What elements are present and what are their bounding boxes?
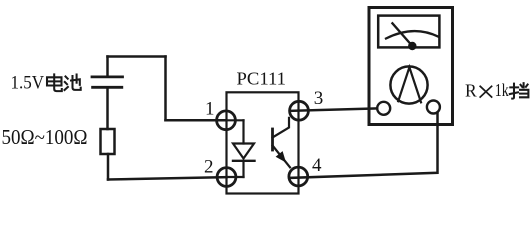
svg-text:PC111: PC111 [237,69,287,89]
meter dial pointer [398,67,421,102]
wire bottom rail to pin 2 [108,177,227,179]
pin 3 terminal [290,101,309,120]
svg-text:3: 3 [314,88,324,109]
glyph 电 [47,74,62,91]
pin 4 terminal [289,167,308,186]
multimeter M1 case [369,8,453,125]
phototransistor Q1 emitter arrow [276,151,286,162]
pin 1 terminal [217,111,236,130]
meter left terminal [377,102,390,115]
wire pin1 to LED anode [226,119,244,121]
label 1.5V电池 [11,74,81,94]
phototransistor Q1 collector [273,118,290,138]
phototransistor Q1 base bar [271,129,274,150]
LED D1 cathode bar [233,160,255,162]
meter right terminal [427,101,440,114]
meter range dial [390,66,427,103]
label R×1k挡 [465,80,528,101]
phototransistor Q1 emitter [273,146,291,168]
multiplication sign [480,86,491,97]
svg-text:1.5V: 1.5V [11,74,45,94]
svg-text:1: 1 [205,98,215,119]
meter needle [392,23,412,46]
LED D1 triangle [233,144,254,159]
wire battery+ to top rail [106,57,109,76]
meter scale arc [386,31,439,38]
wire pin4 to meter right terminal [289,113,437,178]
wire right drop to pin1 [164,57,167,121]
meter needle pivot [408,42,416,50]
LED D1 anode lead [242,120,244,143]
resistor R1 [101,129,115,154]
svg-text:50Ω~100Ω: 50Ω~100Ω [2,125,88,149]
optocoupler U1 body [227,92,299,193]
svg-text:R: R [465,81,477,101]
wire to pin 1 [166,119,227,122]
wire battery- to resistor [106,89,109,130]
wire resistor to bottom rail [107,154,110,180]
wire top rail [108,55,166,58]
svg-text:1k: 1k [495,80,509,100]
wire LED cathode to pin2 [227,176,244,178]
glyph 池 [65,75,81,91]
wire pin3 to meter left terminal [290,108,377,111]
glyph 挡 [510,83,529,98]
svg-text:4: 4 [312,155,322,176]
svg-text:2: 2 [204,156,214,177]
battery B1 (1.5V cell) [92,77,123,87]
pin 2 terminal [217,168,236,187]
LED D1 cathode lead [242,161,244,177]
meter scale window [378,16,439,48]
